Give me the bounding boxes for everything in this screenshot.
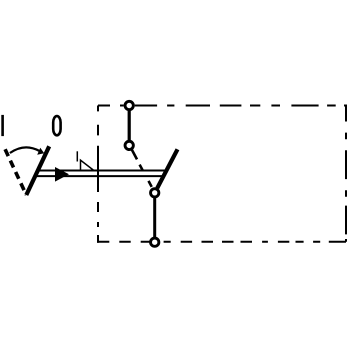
- switch enclosure right border (dash-dot): [345, 105, 347, 242]
- motion arc arrow: [10, 147, 40, 153]
- linkage direction arrowhead: [55, 167, 69, 182]
- label I (position ON): [1, 115, 4, 136]
- wire: top terminal to fixed contact: [128, 108, 131, 142]
- actuator lever solid: [26, 146, 49, 195]
- wire: moving contact pivot to bottom terminal: [153, 196, 156, 241]
- contact closed-position path (dashed): [132, 149, 152, 187]
- terminal top (on border): [125, 101, 133, 109]
- fixed contact: [125, 141, 133, 149]
- mechanical linkage (double line): [37, 170, 167, 172]
- switch enclosure bottom border (dash-dot): [97, 241, 346, 243]
- detent latch triangle: [81, 160, 94, 170]
- label 0 (position OFF): [53, 116, 60, 135]
- moving contact pivot: [151, 189, 159, 197]
- moving contact blade: [157, 149, 177, 188]
- switch enclosure left border (dash-dot): [97, 106, 99, 243]
- detent latch tick: [76, 151, 78, 161]
- switch enclosure top border (dash-dot): [98, 105, 346, 107]
- actuator lever dashed (alternate position): [5, 149, 26, 195]
- terminal bottom (on border): [151, 238, 159, 246]
